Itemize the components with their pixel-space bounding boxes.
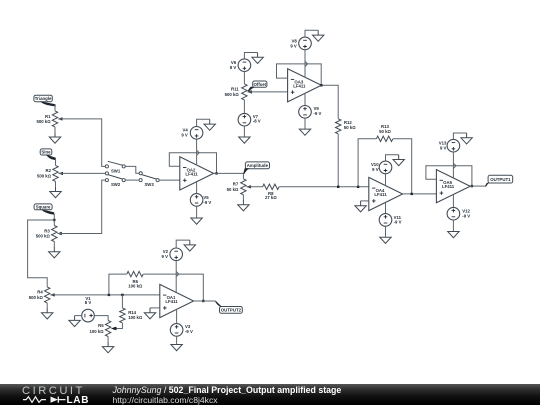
wire SW1 to SW3 [125, 166, 139, 173]
wire OA1 noninverting to ground [150, 307, 160, 309]
wire V5 to ground [196, 206, 198, 218]
svg-text:-9 V: -9 V [185, 329, 193, 334]
svg-text:Triangle: Triangle [35, 96, 52, 101]
wire R2 bottom [55, 181, 57, 186]
junction R14 node [121, 294, 123, 296]
label V13 value [439, 141, 447, 151]
svg-text:OUTPUT2: OUTPUT2 [221, 308, 242, 313]
svg-text:R11: R11 [231, 87, 239, 92]
svg-text:LF411: LF411 [374, 192, 387, 197]
op-amp OA2 LF411 [180, 157, 214, 190]
ground below R7 [238, 200, 249, 211]
svg-text:8 V: 8 V [85, 300, 92, 305]
ground at V6 [252, 53, 263, 64]
resistor R8 27k [263, 184, 280, 189]
ground below R5 [102, 342, 113, 353]
svg-text:SW1: SW1 [111, 169, 121, 174]
wire V3 to ground [176, 336, 178, 344]
svg-text:R7: R7 [233, 182, 239, 187]
svg-text:Amplitude: Amplitude [247, 163, 269, 168]
svg-text:50 kΩ: 50 kΩ [227, 187, 239, 192]
label V8 value [290, 38, 297, 48]
svg-text:50 kΩ: 50 kΩ [344, 125, 356, 130]
wire OA2 Vminus to V5 [196, 182, 198, 194]
wire R7 bottom [242, 195, 244, 200]
wire OA3 output to R12 [322, 85, 339, 119]
ground below V3 [171, 345, 182, 351]
ground below V12 [448, 232, 459, 238]
wire OA2 output to R7 [214, 173, 244, 178]
junction OA3 output feedback [320, 84, 322, 86]
svg-text:100 kΩ: 100 kΩ [128, 315, 143, 320]
svg-text:SW3: SW3 [144, 182, 154, 187]
voltage source V4 9V [190, 127, 203, 140]
svg-text:-9 V: -9 V [462, 213, 470, 218]
ground at OA1 input [144, 308, 155, 319]
node flag OUTPUT2 [215, 301, 242, 313]
wiper arrow R5 [111, 327, 116, 330]
ground below R2 [50, 187, 61, 198]
footer url line [113, 395, 219, 405]
svg-text:LF411: LF411 [293, 83, 306, 88]
svg-text:R5: R5 [98, 323, 104, 328]
wire OA4 feedback left [358, 139, 376, 187]
node flag Triangle [34, 95, 56, 106]
resistor R6 100k [127, 271, 143, 276]
potentiometer R11 500k [242, 84, 252, 100]
footer black bar [0, 384, 540, 405]
wire R14 branch [121, 295, 123, 308]
svg-text:500 kΩ: 500 kΩ [36, 234, 51, 239]
ground below V5 [191, 218, 202, 224]
svg-text:SW2: SW2 [111, 182, 121, 187]
ground at V8 [313, 30, 324, 41]
wire R11 wiper to OA3 [248, 91, 288, 93]
wire R6 feedback left [109, 274, 127, 295]
wire V7 to ground [243, 126, 245, 137]
svg-text:9 V: 9 V [162, 254, 169, 259]
svg-text:Sine: Sine [41, 150, 51, 155]
potentiometer R3 500k [52, 226, 62, 242]
svg-text:R4: R4 [37, 290, 43, 295]
wire R5 bottom [107, 337, 109, 342]
junction OA4 output feedback [411, 193, 413, 195]
switch SW1 [105, 161, 125, 173]
wire hop at OA5 feedback [453, 163, 456, 168]
label R7 value [227, 182, 239, 193]
label V12 value [462, 209, 470, 219]
wire OA3 Vminus to V9 [304, 94, 306, 106]
svg-text:9 V: 9 V [181, 132, 188, 137]
svg-text:-8 V: -8 V [253, 119, 261, 124]
node flag OUTPUT1 [485, 175, 513, 186]
ground at V1 [69, 316, 80, 327]
wire R1 wiper to SW1 [58, 119, 105, 166]
voltage source V11 -9V [379, 214, 392, 227]
wire V9 to ground [304, 118, 306, 129]
label R11 value [225, 87, 240, 98]
resistor R12 50k [336, 119, 341, 134]
CircuitLab logo wordmark CIRCUIT [22, 385, 85, 397]
wire OA5 output [471, 185, 487, 187]
node flag Square [34, 204, 55, 215]
svg-text:-9 V: -9 V [314, 111, 322, 116]
ground below R1 [49, 132, 60, 143]
op-amp OA3 LF411 [288, 69, 322, 102]
svg-text:LAB: LAB [67, 395, 90, 405]
wire R2 wiper to SW2 throw [59, 172, 106, 174]
junction Square node [53, 219, 55, 221]
voltage source V12 -9V [447, 207, 460, 220]
label R13 value [379, 124, 391, 134]
ground below V9 [299, 129, 310, 135]
svg-text:Square: Square [36, 205, 51, 210]
ground below V11 [380, 237, 391, 243]
wire V12 to ground [452, 220, 454, 232]
wire OA4 output to OA5 [403, 193, 437, 195]
wire V10 to OA4 Vplus [385, 174, 387, 186]
footer title line [112, 385, 342, 395]
wire V4 to ground [197, 119, 210, 126]
wire OA1 output [194, 300, 216, 302]
voltage source V5 -9V [190, 194, 203, 207]
voltage source V2 9V [170, 248, 183, 261]
svg-text:500 kΩ: 500 kΩ [37, 174, 52, 179]
op-amp OA4 LF411 [369, 177, 403, 210]
label R5 value [90, 323, 105, 334]
node flag Amplitude [243, 162, 269, 174]
wire Square flag to node [53, 214, 55, 220]
wire R4 wiper to OA1 inverting [50, 294, 159, 296]
label R2 value [37, 168, 52, 178]
potentiometer R5 100k [105, 321, 115, 337]
svg-text:100 kΩ: 100 kΩ [90, 329, 105, 334]
wire V8 to ground [305, 30, 318, 37]
label V7 value [253, 114, 261, 124]
ground at V4 [204, 119, 215, 130]
ground at V10 [393, 155, 404, 166]
wire OA4 feedback right [393, 139, 412, 194]
label R1 value [36, 114, 51, 124]
wire V1 to ground [75, 315, 82, 317]
svg-text:OUTPUT1: OUTPUT1 [490, 177, 511, 182]
svg-text:JohnnySung / 502_Final Project: JohnnySung / 502_Final Project_Output am… [112, 385, 342, 395]
svg-text:-9 V: -9 V [203, 200, 211, 205]
wire OA4 noninverting to ground [361, 200, 369, 202]
ground below R3 [49, 247, 60, 258]
wire V13 to OA5 Vplus [452, 152, 454, 178]
resistor R13 50k [376, 136, 393, 141]
wire hop at R6 feedback [176, 272, 179, 277]
wire R3 bottom [53, 242, 55, 247]
wire SW2 to SW3 [125, 179, 139, 181]
voltage source V10 9V [379, 161, 392, 174]
label V11 value [394, 215, 402, 225]
junction OA5 output feedback [471, 185, 473, 187]
label V4 value [181, 128, 188, 138]
svg-text:LF411: LF411 [165, 299, 178, 304]
voltage source V1 8V [82, 309, 95, 322]
wire V10 to ground [386, 155, 399, 161]
wire V6 to ground [244, 53, 257, 59]
potentiometer R1 500k [52, 111, 62, 127]
op-amp OA1 LF411 [160, 284, 194, 317]
wire R14 to R5 wiper [114, 323, 123, 329]
wire R3 wiper up to switches [58, 180, 106, 233]
label R12 value [344, 120, 356, 130]
junction OA2 output feedback [215, 172, 217, 174]
wire V11 to ground [385, 226, 387, 237]
ground below V7 [239, 137, 250, 143]
label R3 value [36, 228, 51, 238]
wire V1 to R5 [94, 316, 108, 321]
wire V2 to ground [176, 240, 190, 248]
potentiometer R7 50k [241, 179, 251, 195]
switch SW3 [139, 172, 159, 187]
wire OA3 feedback loop [277, 64, 322, 85]
label R6 value [128, 279, 143, 289]
voltage source V9 -9V [299, 106, 312, 119]
voltage source V8 9V [299, 37, 312, 50]
svg-text:LF411: LF411 [185, 171, 198, 176]
ground at OA4 input [355, 201, 366, 212]
junction OA1 output feedback [202, 300, 204, 302]
label R14 value [128, 310, 143, 320]
label V5 value [203, 195, 211, 205]
svg-text:50 kΩ: 50 kΩ [379, 129, 391, 134]
wire OA4 Vminus to V11 [385, 202, 387, 213]
label V6 value [230, 60, 237, 70]
wire R8 to OA4 inverting input [279, 186, 369, 188]
CircuitLab logo resistor squiggle and diode [23, 397, 66, 403]
junction OA4 feedback node [357, 186, 359, 188]
wire Square node to R3 [53, 220, 55, 226]
wire V13 to ground [453, 133, 466, 139]
svg-text:500 kΩ: 500 kΩ [36, 119, 51, 124]
svg-text:27 kΩ: 27 kΩ [265, 195, 277, 200]
wire R6 feedback right [143, 274, 203, 301]
svg-text:Offset: Offset [254, 82, 267, 87]
svg-text:9 V: 9 V [440, 146, 447, 151]
label V10 value [371, 162, 379, 172]
junction R6 node [108, 294, 110, 296]
wire hop at OA3 feedback [305, 61, 308, 66]
wire Sine flag to R2 [55, 158, 57, 165]
label R4 value [29, 290, 44, 301]
svg-text:9 V: 9 V [290, 43, 297, 48]
wire OA2 feedback loop [169, 153, 216, 174]
wire R1 bottom [54, 127, 56, 132]
label V1 value [85, 296, 92, 305]
wire R7 wiper to R8 [246, 186, 262, 188]
CircuitLab logo wordmark LAB [67, 395, 90, 405]
svg-text:500 kΩ: 500 kΩ [29, 295, 44, 300]
wire SW3 to OA2 noninverting input [159, 179, 180, 181]
wire R12 to summing node [337, 134, 339, 187]
svg-text:R2: R2 [46, 168, 52, 173]
wire R11 to V7 [243, 100, 245, 114]
potentiometer R4 500k [45, 287, 55, 303]
node flag Sine [40, 149, 56, 160]
potentiometer R2 500k [53, 165, 63, 181]
junction R12 summing node [337, 186, 339, 188]
wire Square node down to R4 [28, 220, 55, 287]
svg-text:-9 V: -9 V [394, 220, 402, 225]
label V3 value [185, 324, 193, 334]
svg-text:100 kΩ: 100 kΩ [128, 283, 143, 288]
label R8 value [265, 191, 277, 200]
svg-text:8 V: 8 V [230, 65, 237, 70]
op-amp OA5 LF411 [436, 170, 470, 203]
wire OA5 Vminus to V12 [452, 194, 454, 207]
ground at V13 [461, 133, 472, 144]
wire V6 to R11 [243, 72, 245, 84]
voltage source V6 8V [238, 59, 251, 72]
wire R4 bottom [46, 303, 48, 308]
resistor R14 100k [120, 308, 125, 323]
wire hop at OA2 feedback [197, 150, 200, 155]
svg-text:LF411: LF411 [442, 184, 455, 189]
ground below R4 [42, 308, 53, 319]
svg-text:9 V: 9 V [372, 167, 379, 172]
label V2 value [162, 249, 169, 259]
voltage source V7 -8V [238, 113, 251, 126]
wire V2 to OA1 Vplus [175, 261, 177, 293]
voltage source V13 9V [447, 139, 460, 152]
svg-text:http://circuitlab.com/c8j4kcx: http://circuitlab.com/c8j4kcx [113, 395, 219, 405]
ground at V2 [184, 240, 195, 251]
wire Triangle flag to R1 [54, 105, 56, 111]
wire V8 to OA3 Vplus [304, 50, 306, 77]
wire OA5 feedback loop [426, 166, 472, 186]
wire V4 to OA2 Vplus [196, 139, 198, 165]
label V9 value [314, 106, 322, 116]
node flag Offset [248, 81, 267, 92]
svg-text:500 kΩ: 500 kΩ [225, 92, 240, 97]
wire OA1 Vminus to V3 [176, 310, 178, 324]
switch SW2 [105, 172, 125, 187]
voltage source V3 -9V [170, 324, 183, 337]
